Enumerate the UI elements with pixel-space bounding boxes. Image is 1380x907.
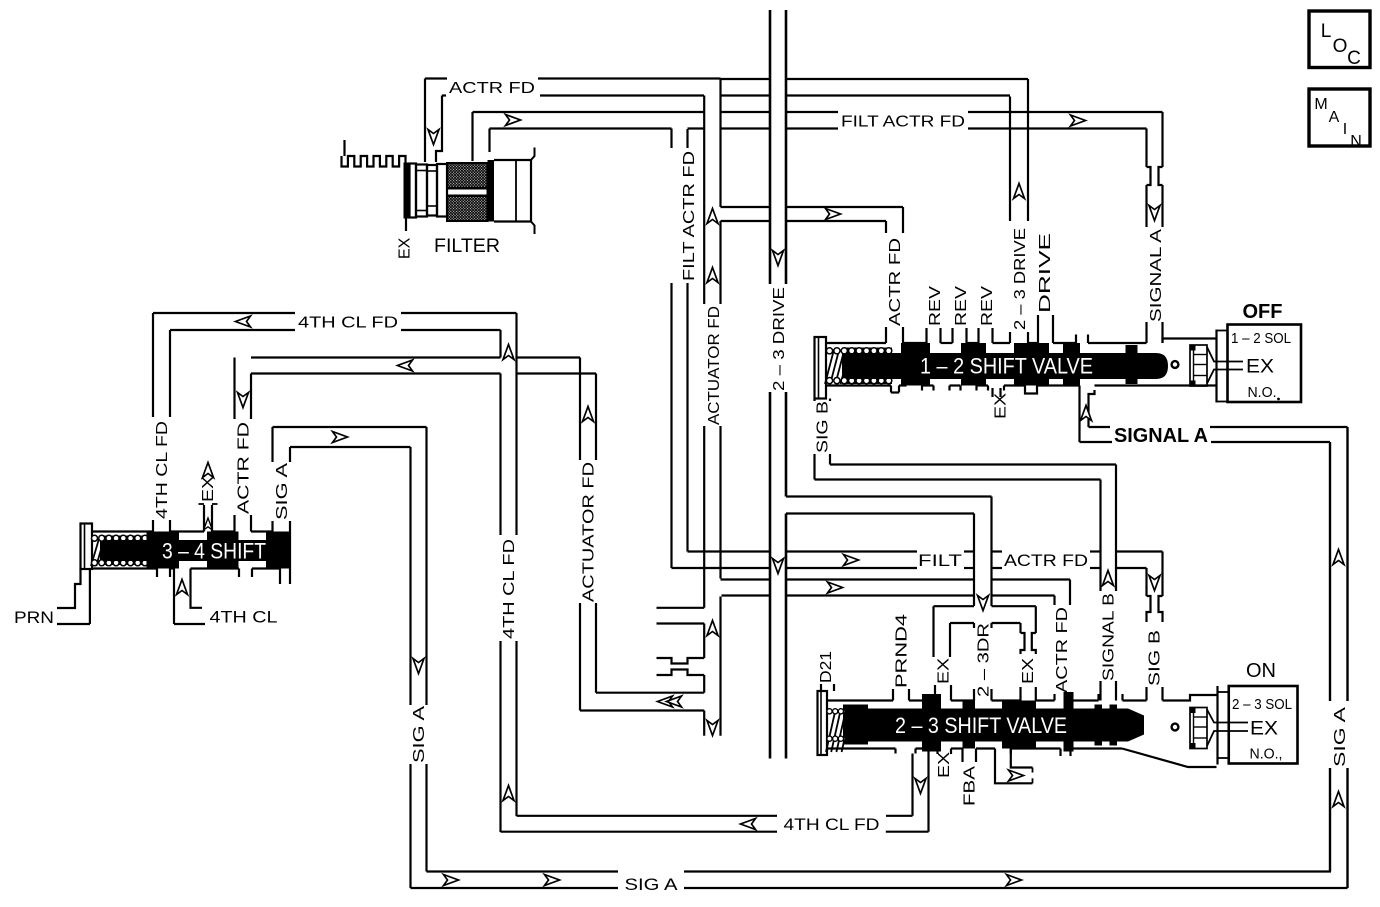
wire 2-3 DRIVE drop to 1-2 shift valve [1010, 79, 1028, 343]
port lips 1-2 valve top (2-3 DRIVE / SIGNAL A side) [1076, 335, 1088, 344]
flow arrow right in filter output channel near SIGNAL A drop [1071, 115, 1086, 126]
wire actuator feed lower channel lower line [722, 594, 1055, 596]
flow arrow up in SIGNAL A output port [1081, 406, 1092, 421]
legend box MAIN [1309, 89, 1370, 150]
wire EX branch right from 2-3DR with orifice [992, 606, 1036, 700]
wire ACTUATOR FD mid vertical channel [580, 358, 596, 711]
svg-text:SIG A: SIG A [411, 706, 428, 763]
port small square below spring chamber [891, 386, 899, 393]
svg-text:FILT ACTR FD: FILT ACTR FD [681, 151, 698, 281]
valve 1-2 shift valve bore outline top [826, 339, 1217, 344]
solenoid armature 1-2 (ladder) [1190, 345, 1208, 387]
svg-text:PRN: PRN [14, 608, 54, 627]
flow arrow down in ACTR FD drop [238, 393, 249, 408]
valve 2-3 shift valve bore outline bottom [827, 749, 1217, 768]
wire ACTR FD branch channel to 1-2 shift valve [721, 207, 904, 221]
wire 2-3 DRIVE main vertical channel [770, 10, 786, 759]
svg-text:D21: D21 [818, 651, 835, 683]
svg-text:ACTUATOR FD: ACTUATOR FD [581, 462, 598, 602]
flow arrow down in 2-3 DRIVE vertical at FILT ACTR FD junction [773, 559, 784, 574]
svg-text:ON: ON [1246, 660, 1276, 682]
svg-text:ACTUATOR FD: ACTUATOR FD [706, 306, 723, 425]
svg-text:3 – 4 SHIFT: 3 – 4 SHIFT [162, 539, 266, 564]
valve 1-2 shift valve bore outline bottom [826, 384, 1217, 386]
valve 3-4 shift valve spring end cap [81, 524, 93, 570]
svg-text:1 – 2 SOL: 1 – 2 SOL [1231, 330, 1291, 347]
svg-text:1 – 2 SHIFT VALVE: 1 – 2 SHIFT VALVE [920, 354, 1093, 379]
svg-text:2 – 3 SOL: 2 – 3 SOL [1232, 696, 1292, 713]
svg-text:SIGNAL B: SIGNAL B [1101, 593, 1118, 681]
wire SIG B horizontal channel [815, 465, 1117, 480]
flow arrows right in SIG A bottom channel [444, 875, 1022, 886]
wire 4TH CL FD left vertical to 3-4 valve [153, 313, 170, 532]
solenoid mounting flange 2-3 [1218, 686, 1229, 765]
svg-text:2 – 3 SHIFT VALVE: 2 – 3 SHIFT VALVE [895, 713, 1067, 738]
wire actuator feed lower channel upper line [721, 578, 1071, 580]
svg-text:L: L [1321, 21, 1332, 42]
wire ACTR FD port drop into 1-2 valve [886, 207, 903, 343]
svg-text:M: M [1314, 96, 1327, 113]
svg-text:EX: EX [200, 476, 217, 502]
svg-text:EX: EX [993, 393, 1010, 419]
wire ACTR FD drop to 3-4 valve port [235, 358, 252, 532]
wire filtered output channel upper line [473, 111, 1163, 113]
wire ACTR FD top channel lower line [442, 94, 1010, 96]
valve 1-2 shift valve spring end cap [815, 337, 827, 399]
filter body rings [410, 164, 448, 218]
wire ACTR FD filter inlet vertical [425, 79, 442, 163]
svg-text:SIG B: SIG B [1147, 630, 1164, 686]
wire ACTUATOR FD bottom channel [580, 693, 704, 711]
svg-text:FILT ACTR FD: FILT ACTR FD [841, 114, 965, 131]
port stubs D21 into spring chamber [821, 684, 834, 691]
wire filter outlet verticals [473, 112, 490, 161]
flow arrow left in 4TH CL FD top channel [236, 316, 251, 327]
svg-text:ACTR FD: ACTR FD [1004, 551, 1088, 570]
svg-text:EX: EX [1020, 658, 1037, 684]
port stubs REV2 on 1-2 valve [953, 328, 967, 343]
flow arrow right in channel below 2-3 valve [1009, 770, 1024, 781]
wire 4TH CL FD bottom channel [501, 816, 929, 832]
port PRN channel from 3-4 valve spring chamber [57, 569, 90, 624]
solenoid mounting flange 1-2 [1217, 330, 1228, 403]
flow arrow up in 2-3 DRIVE drop [1014, 184, 1025, 199]
filter element mesh [447, 163, 488, 221]
flow arrow up in ACTUATOR FD mid vertical [583, 407, 594, 422]
wire ACTR FD drop to 2-3 valve [1055, 580, 1071, 701]
svg-text:I: I [1343, 121, 1347, 138]
flow arrow down in SIG A left vertical [413, 659, 424, 674]
svg-text:SIGNAL A: SIGNAL A [1114, 425, 1208, 447]
valve 1-2 shift valve spool (black) [846, 343, 1168, 386]
flow arrows up in SIG A right vertical [1333, 550, 1344, 807]
svg-text:A: A [1329, 109, 1340, 126]
valve 1-2 shift valve spring [825, 348, 892, 385]
wire ACTR FD top channel upper line [425, 77, 1028, 80]
svg-text:2 – 3 DRIVE: 2 – 3 DRIVE [771, 287, 788, 391]
svg-text:EX: EX [397, 237, 414, 259]
valve 2-3 shift valve spool (black) [845, 692, 1144, 752]
wire SIGNAL A port stubs into 1-2 valve [1147, 322, 1163, 343]
svg-text:OFF: OFF [1243, 301, 1283, 323]
svg-text:SIG A: SIG A [1332, 707, 1349, 767]
wire SIG A bottom channel [411, 872, 1348, 889]
flow arrow down in 2-3 DRIVE vertical upper [773, 251, 784, 266]
solenoid needle/seat 2-3 [1207, 710, 1248, 747]
svg-text:N: N [1350, 133, 1362, 150]
svg-text:SIG B: SIG B [815, 401, 832, 453]
spool end pin 1-2 [1172, 361, 1179, 368]
port FBA stubs below 2-3 valve [963, 749, 977, 763]
svg-text:REV: REV [927, 286, 944, 326]
wire SIGNAL A bold channel [1080, 427, 1348, 442]
port lips SIGNAL B mouth on 2-3 valve [1099, 694, 1123, 701]
svg-text:ACTR FD: ACTR FD [887, 238, 904, 326]
wire filtered output channel lower line [490, 127, 1147, 129]
wire SIGNAL B vertical channel to 2-3 valve [1101, 465, 1117, 701]
svg-text:N.O.,: N.O., [1250, 746, 1283, 763]
flow arrows up in actuator feed vertical [707, 209, 718, 224]
svg-text:4TH CL: 4TH CL [210, 608, 278, 627]
valve 3-4 shift valve spool (black) [108, 532, 290, 569]
filter shell cup [494, 148, 535, 235]
flow arrow right in FILT ACTR FD middle channel [844, 555, 859, 566]
filter EX port tick [405, 219, 407, 232]
port EX stubs below 2-3 valve [938, 749, 952, 755]
port stubs 3-4 valve bottom [157, 569, 290, 585]
flow arrow right in filter output channel [506, 115, 521, 126]
wire 2-3 DRIVE branch to 2-3DR port [786, 497, 992, 514]
flow arrow down in SIGNAL A drop [1149, 206, 1160, 221]
svg-text:2 – 3 DRIVE: 2 – 3 DRIVE [1012, 228, 1029, 330]
filter assembly sawtooth exhaust edge [342, 140, 407, 167]
port 4TH CL FD drop from 2-3 valve [913, 749, 929, 832]
flow arrow up in mid vertical top [503, 345, 514, 360]
flow arrow up in SIGNAL B vertical [1103, 571, 1114, 586]
svg-text:REV: REV [953, 286, 970, 326]
valve 3-4 shift valve spring [91, 535, 148, 566]
wire 4TH CL FD mid vertical channel [501, 313, 517, 832]
solenoid armature 2-3 (ladder) [1190, 707, 1208, 749]
svg-text:ACTR FD: ACTR FD [1054, 607, 1071, 693]
svg-text:ACTR FD: ACTR FD [449, 80, 535, 97]
port stub DRIVE on 1-2 valve [1038, 315, 1053, 343]
wire FILT ACTR FD middle channel upper line [688, 550, 1163, 552]
svg-text:C: C [1347, 48, 1361, 69]
flow arrow down in SIG B drop [1149, 576, 1160, 591]
orifice in left stub channel at y658-675 [657, 658, 705, 675]
wire actuator feed vertical channel left line [703, 96, 705, 736]
valve 3-4 shift valve bore outline [92, 532, 290, 569]
svg-text:4TH CL FD: 4TH CL FD [784, 815, 880, 834]
wire SIG B drop from FILT ACTR FD channel [1147, 552, 1163, 701]
flow arrow right in ACTR FD branch [826, 209, 841, 220]
flow arrow down in 4TH CL FD drop [915, 779, 926, 794]
svg-text:SIG A: SIG A [274, 463, 291, 520]
svg-text:SIG A: SIG A [625, 875, 679, 894]
flow arrow down at bottom of actuator feed vertical [707, 721, 718, 736]
flow arrow up in mid vertical bottom [503, 786, 514, 801]
flow arrow right in SIG A channel [333, 432, 348, 443]
valve 2-3 shift valve bore outline top [827, 695, 1217, 701]
valve 2-3 shift valve spring end cap [818, 691, 828, 755]
port channel right below 2-3 valve [995, 749, 1033, 784]
wire EX branch left from 2-3DR [934, 606, 975, 700]
stub channel to left at y608-623 [657, 608, 705, 624]
flow arrow up in EX port mouth [204, 518, 213, 530]
wire 2-3DR vertical channel [974, 497, 992, 701]
svg-text:EX: EX [936, 752, 953, 778]
orifice in SIG B drop [1147, 596, 1163, 616]
svg-text:EX: EX [1250, 719, 1278, 740]
flow arrow down in 2-3DR vertical [978, 596, 989, 611]
port stubs REV3 on 1-2 valve [979, 328, 993, 343]
svg-text:2 – 3DR: 2 – 3DR [976, 623, 993, 697]
flow arrow right in actuator feed lower channel [828, 582, 843, 593]
port lips 2-3 valve bottom [896, 749, 1071, 757]
flow arrow up above EX label [203, 463, 214, 478]
wire 4TH CL FD top channel [153, 313, 517, 330]
svg-text:4TH CL FD: 4TH CL FD [154, 421, 171, 519]
port EX top of 3-4 valve [199, 504, 218, 532]
svg-text:N.O.: N.O. [1248, 384, 1277, 401]
wire SIG A right vertical channel [1330, 427, 1348, 888]
valve 2-3 shift valve spring [826, 705, 868, 753]
wire SIG B stubs below 1-2 valve spring cap [815, 399, 831, 480]
svg-text:FBA: FBA [962, 766, 979, 806]
svg-text:O: O [1333, 36, 1348, 57]
svg-text:PRND4: PRND4 [894, 614, 911, 688]
svg-text:FILT: FILT [918, 551, 962, 570]
wire SIG A left vertical channel [411, 427, 427, 888]
wire SIG A port stubs on 3-4 valve [273, 427, 291, 532]
flow arrow double left in ACTUATOR FD bottom channel [658, 696, 682, 707]
wire SIGNAL A output port drop from 1-2 valve [1080, 386, 1095, 443]
solenoid box 2-3 SOL [1229, 686, 1298, 764]
filter outlet bar (black) [488, 160, 495, 222]
svg-text:EX: EX [936, 658, 953, 684]
svg-text:FILTER: FILTER [434, 236, 500, 257]
wire FILT ACTR FD vertical channel [672, 129, 688, 569]
svg-text:EX: EX [1246, 357, 1274, 378]
svg-text:4TH CL FD: 4TH CL FD [298, 315, 398, 332]
flow arrow down into filter [428, 130, 439, 145]
svg-text:ACTR FD: ACTR FD [236, 422, 253, 514]
legend box LOC [1309, 11, 1370, 69]
solenoid box 1-2 SOL [1228, 325, 1302, 403]
svg-text:4TH CL FD: 4TH CL FD [501, 539, 518, 639]
port stubs PRND4 on 2-3 valve [893, 689, 909, 701]
svg-text:REV: REV [979, 286, 996, 326]
port EX stub below 1-2 valve [993, 388, 1001, 397]
filter end cap (black) [404, 163, 410, 219]
solenoid needle/seat 1-2 [1207, 347, 1243, 384]
orifice in SIGNAL A drop [1147, 167, 1163, 185]
wire actuator feed vertical channel right line [719, 79, 721, 736]
svg-text:SIGNAL A: SIGNAL A [1148, 229, 1165, 322]
svg-text:DRIVE: DRIVE [1037, 233, 1054, 313]
wire SIGNAL A drop from filter output channel [1147, 112, 1163, 227]
wire SIG A channel from 3-4 valve top [273, 427, 427, 447]
flow arrow left in 4TH CL FD bottom channel [741, 819, 756, 830]
wire FILT ACTR FD middle channel lower line [672, 567, 1147, 569]
port 4TH CL channel from 3-4 valve [174, 569, 205, 625]
flow arrow left in ACTR FD channel [398, 360, 413, 371]
label N.O. (1-2 SOL) [1248, 384, 1280, 401]
flow arrow up in 4TH CL port [177, 580, 188, 595]
port stubs REV1 on 1-2 valve [927, 328, 941, 343]
port lips 1-2 valve bottom EX ports [922, 386, 1004, 391]
wire ACTR FD channel from 3-4 valve [251, 358, 596, 374]
port U-notch below 1-2 valve [1025, 386, 1037, 394]
spool end pin 2-3 [1172, 724, 1179, 731]
